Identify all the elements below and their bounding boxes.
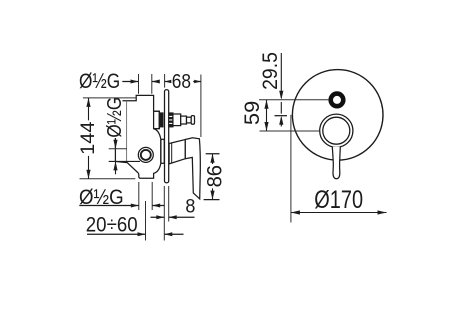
dimension 144 bbox=[80, 98, 136, 179]
svg-text:86: 86 bbox=[202, 165, 226, 187]
lever blade front view bbox=[332, 147, 340, 179]
dimension 86 bbox=[204, 154, 220, 200]
dimension 68 bbox=[165, 74, 201, 137]
svg-text:Ø½G: Ø½G bbox=[79, 186, 124, 209]
dimension 29.5 bbox=[280, 53, 282, 127]
diverter button ring bbox=[331, 94, 344, 107]
mid port arrows bbox=[115, 137, 117, 174]
front port outer circle bbox=[138, 147, 153, 162]
spout threaded section bbox=[169, 113, 173, 127]
handle knob inner bbox=[323, 117, 350, 144]
front view plate circle bbox=[292, 70, 383, 161]
dimension top G arrow pair bbox=[122, 81, 159, 83]
handle head and lever blade bbox=[185, 138, 200, 199]
svg-text:8: 8 bbox=[185, 195, 195, 217]
spout ring behind plate bbox=[160, 113, 163, 127]
reference line diverter centre bbox=[259, 99, 329, 101]
svg-text:Ø½G: Ø½G bbox=[79, 70, 120, 93]
body internal edge bbox=[126, 101, 128, 162]
spout step 2 bbox=[187, 117, 192, 123]
svg-text:Ø170: Ø170 bbox=[314, 187, 363, 214]
svg-text:Ø½G: Ø½G bbox=[104, 97, 126, 138]
svg-text:68: 68 bbox=[172, 70, 191, 93]
plate extension lines bbox=[164, 186, 168, 241]
label mid G text knockout bbox=[106, 100, 123, 139]
spout end cap bbox=[191, 116, 194, 125]
svg-text:144: 144 bbox=[77, 121, 99, 154]
bottom port extension lines bbox=[139, 182, 152, 210]
spout step bbox=[181, 116, 187, 124]
spout flange on body bbox=[154, 111, 160, 128]
dimension 20 to 60 bbox=[87, 233, 184, 235]
svg-text:20÷60: 20÷60 bbox=[86, 213, 138, 236]
svg-text:59: 59 bbox=[241, 101, 264, 125]
handle knob outer bbox=[320, 114, 353, 147]
valve body side view bbox=[115, 95, 160, 178]
spout cylinder bbox=[173, 114, 181, 126]
centre extension line bbox=[145, 201, 147, 241]
wall plate side view bbox=[165, 90, 169, 183]
top port extension lines bbox=[139, 74, 152, 94]
escutcheon bar behind plate bbox=[161, 139, 164, 163]
dimension mid port tangent refs bbox=[109, 148, 127, 150]
dimension 59 bbox=[266, 100, 268, 131]
dimension diameter 170 bbox=[290, 115, 292, 223]
handle cone bbox=[169, 140, 185, 164]
front port bore circle bbox=[141, 150, 151, 160]
dimension bottom G bbox=[79, 205, 164, 207]
dimension 8 bbox=[151, 216, 195, 218]
reference line knob centre bbox=[260, 130, 320, 132]
svg-text:29.5: 29.5 bbox=[259, 52, 282, 90]
